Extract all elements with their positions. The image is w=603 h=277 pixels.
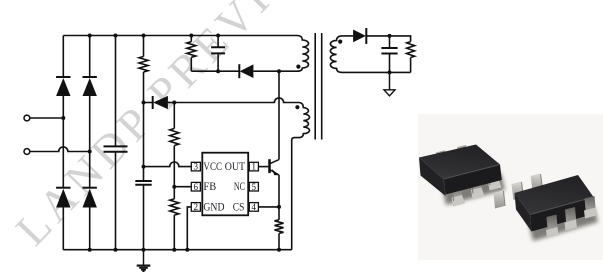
wire VCC to pin3 with hop: [144, 162, 192, 167]
node AC input upper terminal: [24, 115, 30, 121]
transformer T1 aux winding and return: [285, 103, 310, 250]
wire GND pin2 down: [187, 207, 191, 250]
wire divider upper: [173, 103, 175, 129]
wire R4 bottom: [190, 57, 192, 71]
transformer T1 core: [315, 33, 322, 140]
wire VCC node column: [143, 72, 145, 181]
left package body front face: [444, 165, 502, 195]
wire R5 to bus: [278, 233, 280, 249]
resistor R4: [187, 42, 196, 58]
transformer T1 secondary winding: [330, 36, 342, 73]
wire R5 stub top: [278, 207, 280, 220]
right package body front face: [530, 197, 595, 232]
junction C1 top rail: [114, 34, 118, 38]
junction C4 top: [388, 34, 392, 38]
diode D5: [239, 64, 253, 78]
pin 2 box: [191, 202, 200, 212]
pin 6 box: [191, 182, 200, 192]
junction bridge bottom: [88, 248, 92, 252]
right package front lead 2: [565, 207, 578, 231]
resistor R6 load: [407, 42, 415, 58]
capacitor C4: [381, 48, 397, 54]
junction FB divider top: [172, 101, 176, 105]
wire C4 bottom: [389, 54, 391, 73]
junction collector primary: [277, 69, 281, 73]
junction bridge top: [88, 34, 92, 38]
svg-text:FB: FB: [203, 181, 216, 193]
resistor R1: [139, 57, 148, 73]
junction lower AC node: [88, 150, 92, 154]
junction aux diode tap: [142, 101, 146, 105]
svg-text:OUT: OUT: [225, 161, 245, 173]
pin 1 box: [249, 162, 258, 172]
junction ground tap: [142, 248, 146, 252]
svg-text:LANDP PREVIEW: LANDP PREVIEW: [6, 0, 337, 255]
svg-text:5: 5: [252, 182, 257, 192]
wire aux diode left: [144, 102, 153, 104]
left package top edge highlight: [444, 165, 501, 180]
wire FB to pin6: [174, 186, 191, 188]
svg-text:GND: GND: [203, 201, 224, 213]
left package lead 1: [451, 182, 465, 207]
junction C3 top rail: [216, 34, 220, 38]
wire C4 top: [389, 36, 391, 48]
pin 3 box: [191, 162, 200, 172]
wire top rail: [63, 35, 297, 37]
svg-text:4: 4: [252, 202, 257, 212]
op-amp U1 body: [202, 153, 248, 216]
left package lead 3: [488, 166, 502, 191]
wire OUT to base: [258, 166, 268, 168]
wire secondary top: [342, 35, 353, 37]
svg-text:2: 2: [194, 202, 199, 212]
wire snubber bottom: [191, 70, 297, 72]
wire R6 bottom: [410, 58, 412, 73]
left package under shadow: [442, 173, 505, 205]
wire secondary bottom: [342, 71, 411, 73]
resistor R3: [170, 199, 179, 215]
diode D2: [83, 77, 97, 96]
aux phase dot: [295, 105, 299, 109]
junction R1 top rail: [142, 34, 146, 38]
right package top edge highlight: [530, 197, 594, 215]
wire C3 top: [217, 36, 219, 48]
transformer T1 primary winding: [297, 36, 309, 72]
wire bridge left leg: [62, 36, 64, 250]
wire collector: [278, 71, 280, 159]
wire divider lower: [173, 215, 175, 250]
right package under shadow: [529, 207, 598, 241]
wire C1 top: [115, 36, 117, 147]
diode D1: [56, 77, 70, 96]
wire R1 stub: [143, 36, 145, 57]
wire upper terminal to bridge: [30, 117, 64, 119]
junction secondary ground: [388, 70, 392, 74]
left package body top face: [419, 145, 500, 180]
junction FB node: [172, 185, 176, 189]
wire lower terminal to bridge with hop: [30, 147, 90, 152]
wire divider mid: [173, 146, 175, 199]
right package body left face: [515, 193, 532, 232]
diode D3: [56, 188, 70, 208]
junction R5 bus: [277, 248, 281, 252]
left package rear lead nubs: [436, 145, 467, 158]
pin 4 box: [249, 202, 258, 212]
right package back lead 3: [531, 174, 543, 192]
wire R4 stub: [190, 36, 192, 42]
resistor R5: [275, 220, 284, 234]
junction GND pin bus: [185, 248, 189, 252]
primary phase dot: [296, 65, 300, 69]
svg-text:3: 3: [194, 162, 199, 172]
junction upper AC node: [61, 116, 65, 120]
wire emitter: [278, 175, 280, 207]
wire D7 to load: [366, 36, 410, 42]
wire CS to emitter node: [258, 206, 279, 208]
diode D7: [353, 28, 366, 44]
junction C3 snubber: [216, 69, 220, 73]
capacitor C3: [211, 47, 225, 53]
node AC input lower terminal: [24, 149, 30, 155]
diode D4: [83, 188, 97, 208]
junction R4 top rail: [189, 34, 193, 38]
capacitor C2: [135, 181, 151, 185]
svg-text:1: 1: [252, 162, 257, 172]
right package back lead 2: [512, 182, 524, 201]
svg-text:6: 6: [194, 182, 199, 192]
left package lead 2: [471, 174, 485, 199]
ground earth symbol secondary: [384, 72, 395, 95]
secondary phase dot: [338, 40, 342, 44]
capacitor C1: [104, 146, 128, 151]
svg-text:CS: CS: [233, 201, 245, 213]
right package front lead 1: [546, 215, 559, 239]
wire C2 bottom: [143, 185, 145, 250]
right package front lead 3: [584, 196, 597, 219]
wire C3 bottom: [217, 53, 219, 71]
wire bridge right leg: [89, 36, 91, 250]
junction C1 bottom rail: [114, 248, 118, 252]
junction divider ground: [172, 248, 176, 252]
svg-text:NC: NC: [234, 181, 245, 193]
right package back lead 1: [494, 191, 506, 209]
wire C1 bottom: [115, 152, 117, 250]
wire bottom ground bus: [63, 249, 291, 251]
resistor R2: [170, 129, 179, 146]
wire aux diode to winding with hop: [168, 98, 285, 103]
diode D6: [153, 96, 168, 109]
left package body left face: [419, 158, 446, 197]
junction VCC tap: [142, 165, 146, 169]
ground chassis symbol: [137, 250, 151, 272]
photo background field: [418, 114, 603, 260]
pin 5 box: [249, 182, 258, 192]
svg-text:VCC: VCC: [203, 161, 222, 173]
junction CS emitter: [277, 205, 281, 209]
transistor Q1: [270, 159, 280, 175]
right package body top face: [515, 175, 594, 215]
